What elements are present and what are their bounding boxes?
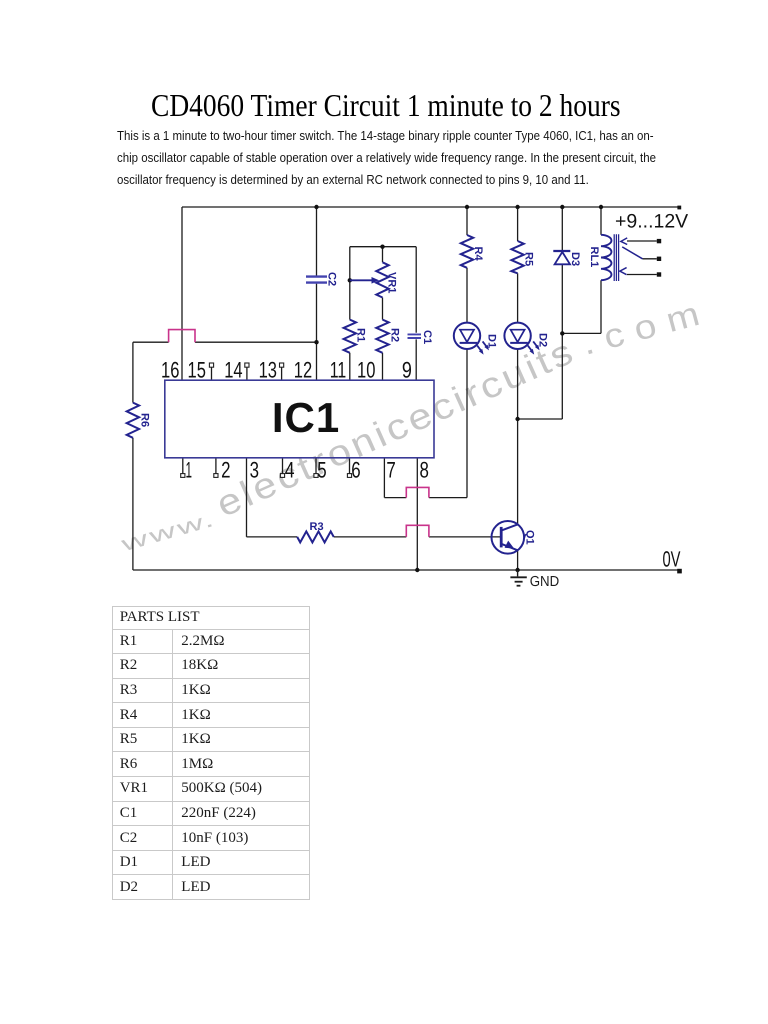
svg-text:C2: C2 <box>326 272 338 286</box>
wire D3/D2 node link <box>518 418 563 420</box>
pin number 9 <box>402 358 412 383</box>
pin 2 stub <box>215 458 217 474</box>
wire R4-D1 branch <box>466 207 468 498</box>
pin number 1 <box>186 458 193 483</box>
svg-text:R3: R3 <box>310 521 324 533</box>
svg-text:Q1: Q1 <box>524 530 536 545</box>
wire VR1-R2 branch <box>382 247 384 381</box>
label D2 <box>537 333 549 347</box>
svg-text:VR1: VR1 <box>386 272 398 293</box>
svg-text:10: 10 <box>357 358 375 383</box>
svg-text:14: 14 <box>224 358 242 383</box>
pin 13 stub <box>281 367 283 380</box>
pin number 12 <box>294 358 312 383</box>
pin number 13 <box>259 358 277 383</box>
svg-text:1: 1 <box>186 458 193 483</box>
label R3 <box>310 521 324 533</box>
label D1 <box>486 334 498 348</box>
svg-text:R1: R1 <box>355 328 367 342</box>
pin number 10 <box>357 358 375 383</box>
wire C1 branch <box>415 247 417 381</box>
svg-text:+9...12V: +9...12V <box>615 211 688 233</box>
svg-text:R6: R6 <box>139 413 151 427</box>
svg-text:C1: C1 <box>421 330 433 344</box>
IC1 label <box>272 394 340 441</box>
resistor R2 <box>376 320 388 353</box>
svg-text:12: 12 <box>294 358 312 383</box>
label C1 <box>421 330 433 344</box>
label R5 <box>523 252 535 266</box>
pin 13 no-connect square <box>280 363 284 367</box>
pin 15 no-connect square <box>209 363 213 367</box>
parts list table <box>112 606 311 901</box>
wire RL1 bottom to D3 <box>562 332 601 334</box>
svg-text:9: 9 <box>402 358 412 383</box>
junction dots <box>314 205 603 572</box>
resistor R5 <box>511 241 523 273</box>
pin 6 no-connect square <box>347 474 351 478</box>
wire D3 branch <box>561 207 563 419</box>
pin 4 stub <box>282 458 284 474</box>
svg-text:D2: D2 <box>537 333 549 347</box>
+V rail end terminal <box>677 206 681 210</box>
svg-text:7: 7 <box>386 458 395 483</box>
wire hop (pin16 crossing) <box>169 330 195 343</box>
ground symbol <box>510 570 526 586</box>
svg-text:16: 16 <box>161 358 179 383</box>
relay RL1 contacts <box>620 238 643 275</box>
pin number 5 <box>317 458 326 483</box>
pin 14 no-connect square <box>245 363 249 367</box>
wire 0V bottom rail <box>133 569 679 571</box>
label C2 <box>326 272 338 286</box>
pin 1 stub <box>182 458 184 474</box>
pin number 8 <box>420 458 429 483</box>
diode D3 <box>553 251 570 264</box>
pin number 15 <box>188 358 206 383</box>
svg-text:RL1: RL1 <box>588 247 600 268</box>
pin 4 no-connect square <box>280 474 284 478</box>
svg-text:D1: D1 <box>486 334 498 348</box>
pin 5 no-connect square <box>314 474 318 478</box>
pin 14 stub <box>246 367 248 380</box>
relay terminal squares <box>657 239 661 277</box>
svg-text:11: 11 <box>330 358 347 383</box>
label D3 <box>569 252 581 266</box>
label RL1 <box>588 247 600 268</box>
resistor R6 <box>127 403 139 438</box>
wire pin8 to 0V rail <box>416 458 418 570</box>
pin number 2 <box>221 458 230 483</box>
svg-text:4: 4 <box>285 458 295 483</box>
wire R6 branch verticals <box>132 342 134 570</box>
capacitor C2 <box>306 277 327 283</box>
0V rail end terminal <box>677 569 682 574</box>
label VR1 <box>386 272 398 293</box>
svg-text:6: 6 <box>351 458 360 483</box>
pin 1 no-connect square <box>181 474 185 478</box>
label Q1 <box>524 530 536 545</box>
wire R5-D2 branch <box>517 207 519 419</box>
label R4 <box>472 247 484 262</box>
wire pin3 to R3 <box>247 458 298 537</box>
description paragraph <box>117 125 653 192</box>
wire Q1 emitter to 0V <box>517 550 519 570</box>
pin 2 no-connect square <box>214 474 218 478</box>
wire Q1 collector <box>517 419 519 524</box>
net label 0V <box>663 547 681 572</box>
resistor R3 <box>297 531 334 542</box>
pin number 11 <box>330 358 347 383</box>
label R2 <box>389 328 401 342</box>
potentiometer VR1 <box>376 262 388 297</box>
wire R3 to Q1 base <box>334 536 502 538</box>
resistor R4 <box>461 235 473 268</box>
svg-text:3: 3 <box>250 458 259 483</box>
pin 5 stub <box>315 458 317 474</box>
pin 6 stub <box>349 458 351 474</box>
pin 15 stub <box>211 367 213 380</box>
wire C2 branch (rail to pin 12) <box>316 207 318 380</box>
label R6 <box>139 413 151 427</box>
pin number 3 <box>250 458 259 483</box>
pin number 4 <box>285 458 295 483</box>
net label +9...12V <box>615 211 688 233</box>
net label GND <box>530 574 560 590</box>
wire R6 top to C2/pin12 node <box>133 341 317 343</box>
relay RL1 coil <box>601 234 619 281</box>
wire hop (R3 line over pin8) <box>406 525 429 537</box>
svg-text:D3: D3 <box>569 252 581 266</box>
svg-text:GND: GND <box>530 574 560 590</box>
label R1 <box>355 328 367 342</box>
transistor Q1 <box>492 521 525 554</box>
svg-text:R2: R2 <box>389 328 401 342</box>
VR1 wiper arrow <box>350 277 379 284</box>
svg-text:8: 8 <box>420 458 429 483</box>
pin number 7 <box>386 458 395 483</box>
LED D2 <box>504 323 538 353</box>
watermark www.electronicecircuits.com <box>117 292 714 557</box>
wire R1 branch <box>349 247 351 381</box>
pin number 14 <box>224 358 242 383</box>
svg-text:0V: 0V <box>663 547 681 572</box>
svg-text:5: 5 <box>317 458 326 483</box>
pin number 16 <box>161 358 179 383</box>
wire oscillator top node A <box>350 246 416 248</box>
IC U1 border <box>165 380 434 458</box>
wire pin7 to D1 cathode <box>384 458 467 498</box>
wire pin16 to +V rail <box>181 207 183 380</box>
LED D1 <box>454 323 488 353</box>
capacitor C1 <box>408 334 422 338</box>
wire RL1 coil taps <box>600 207 602 333</box>
IC U1 body <box>165 380 434 458</box>
svg-text:2: 2 <box>221 458 230 483</box>
svg-text:15: 15 <box>188 358 206 383</box>
svg-text:R5: R5 <box>523 252 535 266</box>
resistor R1 <box>344 320 356 353</box>
svg-text:13: 13 <box>259 358 277 383</box>
wire hop (pin7 line over pin8) <box>406 487 429 497</box>
svg-text:R4: R4 <box>472 247 484 262</box>
pin number 6 <box>351 458 360 483</box>
wire +V top rail <box>182 206 679 208</box>
svg-text:.com: .com <box>578 292 715 363</box>
svg-text:IC1: IC1 <box>272 394 340 441</box>
wire relay contact leads <box>627 241 657 275</box>
title <box>151 89 621 121</box>
